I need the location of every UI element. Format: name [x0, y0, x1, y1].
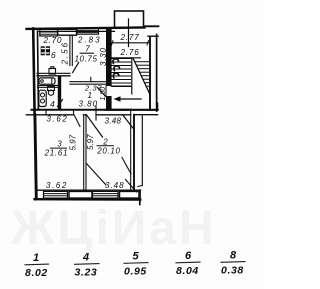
svg-text:2.70: 2.70 — [43, 36, 63, 45]
svg-text:1: 1 — [33, 252, 40, 264]
svg-text:7: 7 — [85, 45, 90, 54]
svg-text:4: 4 — [50, 99, 55, 109]
svg-text:2: 2 — [102, 138, 108, 147]
svg-text:ЖЦіИаН: ЖЦіИаН — [10, 202, 217, 255]
svg-text:10.75: 10.75 — [75, 55, 98, 64]
svg-text:20.10: 20.10 — [96, 147, 121, 156]
svg-text:3.30: 3.30 — [99, 47, 108, 66]
svg-text:5.97: 5.97 — [68, 134, 77, 150]
svg-text:3: 3 — [57, 140, 62, 149]
svg-text:3.80: 3.80 — [79, 99, 99, 108]
svg-text:21.61: 21.61 — [44, 149, 69, 158]
svg-text:5: 5 — [133, 251, 140, 263]
svg-text:6: 6 — [185, 250, 192, 262]
svg-text:1.80: 1.80 — [100, 87, 107, 101]
svg-text:2.83: 2.83 — [77, 35, 102, 44]
svg-text:3.23: 3.23 — [75, 267, 98, 279]
svg-text:3.62: 3.62 — [47, 115, 69, 124]
svg-text:2.77: 2.77 — [120, 33, 140, 42]
svg-text:8: 8 — [230, 250, 237, 262]
svg-text:0.95: 0.95 — [124, 266, 147, 278]
svg-text:6: 6 — [51, 50, 56, 60]
svg-text:8.04: 8.04 — [176, 265, 199, 277]
svg-text:2.56: 2.56 — [61, 41, 70, 66]
svg-text:5.97: 5.97 — [86, 134, 95, 150]
svg-text:3.48: 3.48 — [105, 117, 122, 126]
svg-text:3.62: 3.62 — [46, 181, 68, 190]
svg-text:8.02: 8.02 — [25, 267, 48, 279]
svg-text:0.38: 0.38 — [221, 265, 244, 277]
svg-text:2.76: 2.76 — [120, 48, 140, 57]
svg-text:4: 4 — [82, 252, 90, 264]
svg-text:3.48: 3.48 — [105, 181, 125, 190]
